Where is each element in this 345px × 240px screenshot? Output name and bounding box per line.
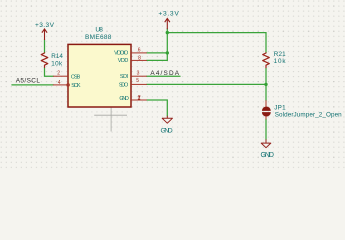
svg-text:1: 1 <box>138 96 141 102</box>
svg-text:A5/SCL: A5/SCL <box>16 77 41 84</box>
svg-text:R14: R14 <box>51 53 63 60</box>
crosshair cursor <box>94 94 127 132</box>
svg-text:BME688: BME688 <box>85 34 112 41</box>
svg-text:GND: GND <box>119 96 128 102</box>
svg-text:2: 2 <box>57 71 60 77</box>
wire: SDI to A4/SDA label <box>147 75 180 77</box>
svg-text:10k: 10k <box>274 58 287 65</box>
svg-text:GND: GND <box>161 127 173 134</box>
pin 7/1 GND (stacked) <box>131 99 147 101</box>
wire: SDO long wire to R21 bottom <box>147 83 266 85</box>
svg-text:JP1: JP1 <box>274 104 286 111</box>
wire: +3.3V left down to R14 <box>44 40 46 53</box>
wire: rail to R21 horizontal <box>167 33 266 53</box>
wire: +3.3V top rail vertical <box>166 29 168 61</box>
svg-text:SCK: SCK <box>71 83 81 89</box>
svg-text:U8: U8 <box>95 26 103 33</box>
junction dot at rail/R21 branch <box>166 31 169 34</box>
pin 8 VDD <box>131 59 147 61</box>
svg-text:+3.3V: +3.3V <box>35 22 55 29</box>
wire: VDDIO pin to +3.3V rail <box>147 52 168 54</box>
svg-text:4: 4 <box>58 80 61 86</box>
wire: JP1 to GND <box>265 119 267 140</box>
svg-text:GND: GND <box>261 152 274 159</box>
svg-text:CSB: CSB <box>71 74 81 80</box>
junction dot at VDDIO branch <box>166 51 169 54</box>
pin 4 SCK (clock bubble) <box>53 84 67 86</box>
svg-text:6: 6 <box>138 47 141 53</box>
junction dot at SDO/R21/JP1 <box>264 83 267 86</box>
svg-text:+3.3V: +3.3V <box>158 11 179 18</box>
svg-text:SolderJumper_2_Open: SolderJumper_2_Open <box>275 111 342 118</box>
pin 5 SDO <box>131 83 147 85</box>
svg-text:3: 3 <box>137 71 140 77</box>
wire: VDD pin elbow <box>147 59 168 61</box>
svg-text:5: 5 <box>136 78 139 84</box>
pin 2 CSB <box>53 75 68 77</box>
svg-text:VDD: VDD <box>118 58 129 64</box>
pin 6 VDDIO <box>131 52 147 54</box>
svg-text:SDO: SDO <box>119 82 129 88</box>
pin 3 SDI <box>131 75 147 77</box>
wire: R14 bottom to CSB elbow <box>45 68 54 76</box>
svg-text:10k: 10k <box>51 61 63 68</box>
wire: R21 bottom to JP1 <box>265 68 267 100</box>
wire: A5/SCL to SCK pin <box>12 84 53 86</box>
svg-text:8: 8 <box>138 55 141 61</box>
wire: GND pin elbow <box>147 100 168 116</box>
svg-text:SDI: SDI <box>120 74 129 80</box>
svg-text:VDDIO: VDDIO <box>114 50 129 56</box>
